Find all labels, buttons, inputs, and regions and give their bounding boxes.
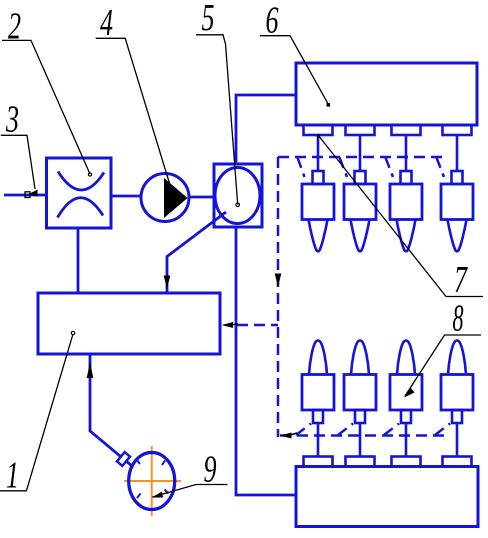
injector 8c stub bbox=[392, 457, 421, 467]
wire riser bottom c bbox=[384, 424, 399, 436]
injector 7d stub bbox=[443, 125, 472, 135]
injector 8b cap bbox=[355, 410, 365, 423]
injector 7b stub bbox=[346, 125, 375, 135]
wire regulator bottom to bottom rail bbox=[236, 227, 296, 495]
wire filter bottom to tank 1 bbox=[77, 228, 80, 293]
wire riser bottom a bbox=[296, 424, 311, 436]
injector 8d stem bbox=[456, 423, 459, 457]
leader label 1 bbox=[0, 334, 73, 491]
wire return branch to tank bbox=[237, 324, 278, 327]
svg-text:4: 4 bbox=[100, 2, 113, 44]
sensor 9 connector bbox=[117, 452, 130, 466]
pump rotor triangle bbox=[164, 178, 188, 218]
wire filter to pump bbox=[111, 195, 141, 198]
wire return vertical bbox=[277, 157, 280, 437]
injector 7d cap bbox=[452, 171, 463, 184]
leader dot 1 bbox=[71, 331, 74, 334]
filter F (component 2) box bbox=[47, 158, 112, 228]
injector 8d body bbox=[441, 375, 473, 411]
injector 8a dome bbox=[309, 341, 327, 375]
leader label 5 bbox=[196, 35, 238, 205]
injector 7a stem bbox=[317, 135, 320, 171]
svg-text:7: 7 bbox=[454, 259, 468, 301]
regulator circle bbox=[215, 168, 260, 224]
dashed return lines bbox=[237, 157, 450, 437]
wire pump to regulator bbox=[189, 196, 214, 199]
leader arrow 9 bbox=[152, 492, 164, 498]
svg-text:9: 9 bbox=[204, 449, 217, 491]
flow arrow bottom return (left) bbox=[288, 433, 297, 436]
leader label 9 bbox=[153, 485, 228, 498]
flow arrow into tank (down) bbox=[164, 276, 171, 290]
wire riser bottom b bbox=[338, 424, 353, 436]
injector 7a body bbox=[302, 184, 334, 220]
svg-text:8: 8 bbox=[453, 298, 464, 340]
leader label 3 bbox=[1, 135, 35, 189]
leader arrow 8 bbox=[404, 388, 415, 398]
injector 7b stem bbox=[359, 135, 362, 171]
injector 7c stem bbox=[405, 135, 408, 171]
wire riser top a bbox=[298, 158, 305, 178]
wire riser bottom d bbox=[435, 424, 450, 436]
injector 7c cap bbox=[401, 171, 412, 184]
wire regulator top to rail 6 bbox=[236, 95, 296, 164]
injector 7d stem bbox=[456, 135, 459, 171]
leader dot 5 bbox=[236, 203, 240, 207]
regulator (component 5) box bbox=[214, 164, 262, 227]
wire inlet line bbox=[4, 194, 46, 197]
injector 7d nozzle bbox=[448, 220, 467, 252]
injector 8a stem bbox=[317, 423, 320, 457]
leader dot 6 bbox=[327, 103, 331, 107]
injector 7b nozzle bbox=[351, 220, 370, 252]
sensor 9 (gauge) circle bbox=[129, 453, 175, 510]
pump (component 4) circle bbox=[141, 174, 189, 222]
injector 8a body bbox=[302, 375, 334, 411]
injector 7d body bbox=[441, 184, 473, 220]
svg-text:2: 2 bbox=[8, 6, 21, 48]
top injector group (7) bbox=[302, 125, 473, 251]
injector 8c dome bbox=[397, 341, 415, 375]
injector 8a cap bbox=[313, 410, 323, 423]
sensor 9 centerline vertical bbox=[151, 446, 153, 516]
leader label 8 bbox=[405, 335, 481, 396]
filter top arc bbox=[58, 172, 104, 191]
injector 8c stem bbox=[405, 423, 408, 457]
filter bottom arc bbox=[58, 198, 104, 218]
fuel rail (component 6) top bbox=[296, 63, 477, 125]
injector 8d stub bbox=[443, 457, 472, 467]
wire riser top d bbox=[437, 158, 445, 178]
injector 8b dome bbox=[351, 341, 369, 375]
bottom injector group (8) bbox=[302, 341, 473, 467]
wire regulator drain to tank 1 bbox=[167, 212, 226, 293]
flow arrow return into tank (left) bbox=[230, 324, 238, 325]
tank/ECU (component 1) box bbox=[38, 293, 220, 354]
injector 8b body bbox=[344, 375, 376, 411]
leader label 6 bbox=[260, 36, 329, 105]
leader label 7 bbox=[318, 135, 483, 297]
svg-text:5: 5 bbox=[202, 0, 215, 39]
wire riser top b bbox=[340, 158, 348, 178]
injector 7a cap bbox=[313, 171, 324, 184]
injector 7c stub bbox=[392, 125, 421, 135]
injector 8d cap bbox=[452, 410, 462, 423]
svg-text:6: 6 bbox=[266, 0, 279, 42]
injector 8a stub bbox=[304, 457, 333, 467]
leader arrow 3 bbox=[30, 190, 39, 196]
injector 8c cap bbox=[401, 410, 411, 423]
leader label 2 bbox=[2, 40, 90, 174]
svg-text:3: 3 bbox=[5, 99, 19, 141]
inlet flow symbol bbox=[25, 192, 30, 198]
wire riser top c bbox=[386, 158, 394, 178]
wire tank to sensor 9 bbox=[90, 354, 132, 466]
injector 7c nozzle bbox=[397, 220, 416, 252]
leader dot 7 bbox=[317, 134, 320, 137]
svg-text:1: 1 bbox=[6, 455, 19, 497]
leader dot 2 bbox=[88, 173, 91, 176]
injector 8b stub bbox=[346, 457, 375, 467]
sensor 9 tick marks bbox=[137, 460, 169, 499]
wire return bottom header bbox=[280, 434, 445, 437]
injector 7c body bbox=[390, 184, 422, 220]
injector 7b body bbox=[344, 184, 376, 220]
sensor 9 centerline horizontal bbox=[124, 480, 181, 482]
injector 8b stem bbox=[359, 423, 362, 457]
injector 7b cap bbox=[355, 171, 366, 184]
flow arrow from sensor (up) bbox=[87, 362, 94, 378]
wire return top header bbox=[278, 156, 446, 159]
injector 7a nozzle bbox=[309, 220, 328, 252]
flow arrow on return line (down) bbox=[275, 274, 282, 288]
injector 7a stub bbox=[304, 125, 333, 135]
injector 8d dome bbox=[448, 341, 466, 375]
injector 8c body bbox=[390, 375, 422, 411]
leader label 4 bbox=[96, 38, 170, 185]
bottom fuel rail bbox=[296, 467, 478, 527]
